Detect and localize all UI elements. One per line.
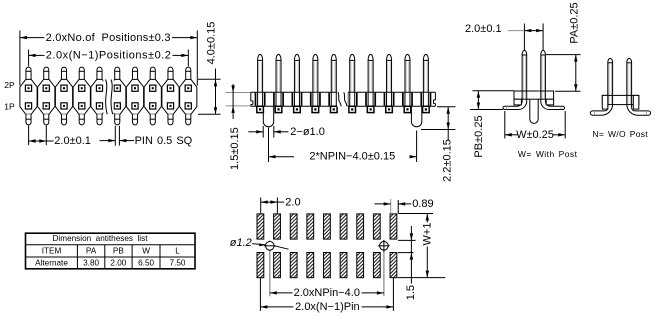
post 2 (round peg, side view) — [411, 106, 421, 126]
pin 6 (side view) — [348, 54, 357, 112]
svg-text:2.0xNPin−4.0: 2.0xNPin−4.0 — [294, 287, 360, 299]
pin 8 (side view) — [384, 54, 393, 112]
hole 1 centreline — [269, 240, 271, 296]
pad 8 top row — [373, 214, 380, 239]
break symbol (top view) — [103, 77, 113, 119]
svg-text:N= W/O Post: N= W/O Post — [592, 129, 648, 139]
pad 4 bottom row — [307, 253, 314, 278]
svg-text:W: W — [142, 246, 150, 255]
dimension 0.89 (pad width) — [375, 198, 434, 213]
svg-text:2*NPIN−4.0±0.15: 2*NPIN−4.0±0.15 — [309, 151, 395, 163]
svg-text:PIN 0.5 SQ: PIN 0.5 SQ — [135, 135, 193, 147]
table column line 4 — [159, 245, 161, 269]
pin 4 (side view) — [311, 54, 320, 112]
pin 7 (side view) — [366, 54, 375, 112]
pad 7 bottom row — [357, 253, 364, 278]
pad 5 bottom row — [324, 253, 331, 278]
housing right tab — [546, 99, 553, 105]
pad 6 bottom row — [340, 253, 347, 278]
pad 8 bottom row — [373, 253, 380, 278]
pin 5 (side view) — [329, 54, 338, 112]
pad 1 bottom row — [257, 253, 264, 278]
pad 2 top row — [274, 214, 281, 239]
header position 1 (top view) — [20, 67, 37, 125]
dimension PA±0.25 (pin height) — [546, 2, 581, 91]
pad 9 bottom row — [390, 253, 397, 278]
dimension W±0.25 (lead span) — [505, 111, 565, 141]
pin left (w/o-post end view) — [608, 58, 613, 104]
svg-text:2P: 2P — [4, 80, 15, 90]
post 1 (round peg, side view) — [263, 106, 273, 127]
housing left end block — [602, 95, 608, 109]
svg-text:2.0±0.1: 2.0±0.1 — [54, 135, 91, 147]
header position 2 (top view) — [38, 67, 55, 125]
pin 2 (side view) — [274, 54, 283, 112]
table column line 1 — [76, 245, 78, 269]
pin 1 (side view) — [256, 54, 265, 112]
housing left tab — [514, 99, 521, 105]
dimension 2.0±0.1 (pitch) — [29, 126, 91, 148]
pad 1 top row — [257, 214, 264, 239]
svg-text:6.50: 6.50 — [138, 259, 154, 268]
svg-text:7.50: 7.50 — [170, 259, 186, 268]
right gull-wing lead (w/o post) — [627, 104, 651, 115]
pin right (w/o-post end view) — [627, 58, 632, 104]
housing (w/o-post end view) — [602, 95, 639, 104]
svg-text:ITEM: ITEM — [42, 246, 62, 255]
pad 4 top row — [307, 214, 314, 239]
pin 9 (side view) — [403, 54, 412, 112]
pad 2 bottom row — [274, 253, 281, 278]
dimension 1.5 (row gap) — [398, 226, 417, 300]
pad 3 bottom row — [290, 253, 297, 278]
bar left break cut — [251, 92, 253, 106]
dimension 2.0±0.1 (pin spacing, end view) — [465, 23, 543, 50]
label ø1.2 with leader — [230, 237, 289, 249]
svg-text:Dimension antitheses list: Dimension antitheses list — [53, 234, 149, 243]
dimension 2.0 (pad pitch) — [261, 196, 301, 213]
svg-text:2−ø1.0: 2−ø1.0 — [290, 126, 325, 138]
table column line 2 — [104, 245, 106, 269]
svg-text:1.5±0.15: 1.5±0.15 — [229, 127, 241, 170]
header position 5 (top view) — [91, 67, 108, 125]
hole 2 (ø1.2) — [380, 242, 389, 251]
svg-text:W±0.25: W±0.25 — [516, 129, 554, 141]
housing (with-post end view) — [514, 91, 554, 99]
left gull-wing lead — [503, 99, 527, 109]
svg-text:2.2±0.15: 2.2±0.15 — [441, 139, 453, 182]
dimension 4.0±0.15 (body width) — [198, 22, 221, 115]
svg-text:PA: PA — [86, 246, 97, 255]
table: Dimension antitheses list — [26, 233, 196, 269]
header position 7 (top view) — [126, 67, 143, 125]
centre post (with-post end view) — [530, 99, 538, 123]
svg-text:2.0x(N−1)Pin: 2.0x(N−1)Pin — [295, 301, 360, 313]
dimension PB±0.25 — [470, 91, 514, 158]
pad 5 top row — [324, 214, 331, 239]
dimension 2.0xNo.of Positions±0.3 — [20, 31, 197, 86]
dimension 2-ø1.0 (post diameter) — [248, 126, 325, 138]
svg-text:Alternate: Alternate — [35, 259, 68, 268]
header position 8 (top view) — [144, 67, 161, 125]
pad 7 top row — [357, 214, 364, 239]
svg-text:PA±0.25: PA±0.25 — [569, 2, 581, 43]
table row line 2 — [26, 256, 196, 258]
dimension 2.0x(N-1)Pin (pad span) — [260, 278, 393, 313]
svg-text:2.00: 2.00 — [110, 259, 126, 268]
svg-text:2.0xNo.of Positions±0.3: 2.0xNo.of Positions±0.3 — [46, 32, 171, 44]
bar middle break — [337, 92, 348, 108]
table row line 1 — [26, 244, 196, 246]
right gull-wing lead — [541, 99, 565, 109]
pad 3 top row — [290, 214, 297, 239]
pin right (with-post end view) — [541, 50, 546, 99]
svg-text:W= With Post: W= With Post — [518, 149, 578, 159]
svg-text:2.0±0.1: 2.0±0.1 — [465, 23, 502, 35]
svg-text:L: L — [175, 246, 180, 255]
housing bar (side view) — [251, 91, 436, 93]
housing right end block — [633, 95, 639, 109]
svg-text:4.0±0.15: 4.0±0.15 — [206, 22, 218, 65]
pin 3 (side view) — [292, 54, 301, 112]
bar right break cut — [434, 92, 436, 106]
pad 9 top row — [390, 214, 397, 239]
dimension 1.5±0.15 (housing height) — [226, 84, 251, 170]
dimension W+1 (pattern height) — [398, 214, 446, 278]
svg-text:ø1.2: ø1.2 — [230, 237, 252, 249]
header position 3 (top view) — [55, 67, 72, 125]
svg-text:2.0: 2.0 — [285, 196, 300, 208]
hole 1 (ø1.2) — [266, 242, 275, 251]
dimension 2.0x(N-1)Positions±0.2 — [29, 50, 189, 67]
svg-text:PB±0.25: PB±0.25 — [473, 115, 485, 157]
dimension 2*NPIN-4.0±0.15 (post spacing) — [269, 128, 417, 163]
pad 6 top row — [340, 214, 347, 239]
hole 2 centreline — [383, 240, 385, 296]
svg-text:0.89: 0.89 — [412, 198, 433, 210]
svg-text:2.0x(N−1)Positions±0.2: 2.0x(N−1)Positions±0.2 — [46, 50, 172, 62]
dimension PIN 0.5 SQ — [100, 126, 193, 147]
svg-text:W+1: W+1 — [422, 223, 434, 246]
header position 9 (top view) — [162, 67, 179, 125]
svg-text:1P: 1P — [4, 102, 15, 112]
dimension 2.2±0.15 (post length) — [421, 107, 456, 182]
svg-text:1.5: 1.5 — [405, 285, 417, 300]
table column line 3 — [131, 245, 133, 269]
dimension 2.0xNPin-4.0 (hole spacing) — [270, 287, 384, 299]
svg-text:3.80: 3.80 — [83, 259, 99, 268]
pin left (with-post end view) — [522, 50, 527, 99]
header position 10 (top view) — [180, 67, 197, 125]
pin 10 (side view) — [421, 54, 430, 112]
svg-text:PB: PB — [113, 246, 124, 255]
left gull-wing lead (w/o post) — [590, 104, 612, 115]
header position 4 (top view) — [73, 67, 90, 125]
header position 6 (top view) — [109, 67, 126, 125]
